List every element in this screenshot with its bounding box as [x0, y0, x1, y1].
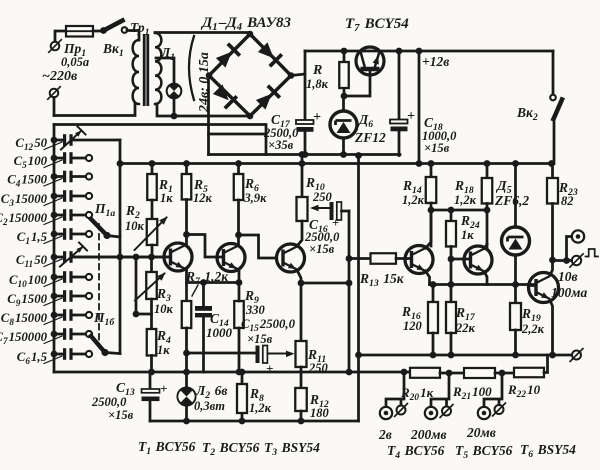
svg-text:1,2к: 1,2к — [402, 193, 425, 207]
ground rail power supply — [209, 153, 401, 156]
svg-text:2в: 2в — [378, 427, 392, 442]
pointer C9 — [44, 298, 62, 306]
junction lamp bottom — [171, 113, 178, 120]
wire R4 bottom — [150, 356, 153, 373]
tap 20мв wires — [484, 373, 502, 407]
pointer C11 — [44, 259, 62, 267]
svg-text:+: + — [332, 216, 339, 230]
svg-text:×15в: ×15в — [309, 242, 335, 256]
switch Вк1 — [100, 27, 107, 34]
resistor R5 — [182, 174, 192, 200]
brace secondary rating — [189, 36, 194, 100]
resistor R24 lead — [450, 210, 453, 221]
terminal 2в slash — [397, 406, 406, 415]
switch Вк2 — [550, 95, 556, 101]
wire R9 leads — [238, 283, 241, 373]
svg-text:2,2к: 2,2к — [521, 322, 545, 336]
zener Д6 bottom lead — [342, 138, 345, 155]
wire secondary bottom to bridge bottom — [157, 104, 251, 116]
potentiometer R11 — [296, 341, 307, 367]
arrow C15 to R11 — [269, 353, 292, 355]
diode top-left edge — [216, 52, 232, 68]
resistor R12 — [295, 388, 307, 411]
resistor R6 lead — [237, 164, 240, 175]
top +12 rail — [305, 50, 553, 53]
wire R6 to T2 collector — [237, 200, 240, 245]
svg-text:ZF12: ZF12 — [354, 130, 386, 145]
capacitor C12 50 — [51, 137, 58, 144]
resistor R20 — [410, 368, 440, 378]
resistor R5 lead — [185, 164, 188, 175]
capacitor C14 — [195, 306, 212, 311]
wire R14 bottom — [430, 203, 433, 246]
capacitor C4 1500 — [51, 173, 58, 180]
resistor R23 — [547, 178, 558, 204]
svg-text:~220в: ~220в — [42, 69, 78, 84]
svg-text:1000: 1000 — [206, 325, 233, 340]
potentiometer R10 — [297, 197, 308, 221]
wire C14 bottom — [202, 318, 205, 373]
emitter coupling wire — [187, 281, 240, 284]
wire T2 emitter — [238, 271, 241, 283]
svg-text:12к: 12к — [193, 191, 213, 205]
wire common bus feed — [54, 125, 266, 155]
zener Д5 — [502, 227, 530, 255]
transistor T4 — [405, 246, 433, 274]
switch П1б contacts — [86, 274, 92, 280]
transformer Тр1 core — [144, 34, 148, 106]
wire T1 emitter to R7 — [185, 270, 188, 302]
svg-text:1к: 1к — [157, 343, 170, 357]
svg-text:100ма: 100ма — [551, 285, 587, 300]
terminal 20мв ring — [478, 407, 490, 419]
resistor R19 — [510, 303, 521, 330]
wire R11-R12 — [300, 367, 303, 388]
lamp Л1 — [166, 83, 181, 98]
svg-text:10к: 10к — [125, 219, 145, 233]
svg-text:1,2к: 1,2к — [249, 401, 272, 415]
capacitor C18 leads — [398, 51, 401, 156]
svg-text:+: + — [313, 110, 321, 125]
wire R7 bottom — [185, 328, 188, 372]
resistor R 1.8к leads — [344, 51, 370, 96]
wire bridge right vertex to C17 column — [291, 74, 305, 76]
rail T1 emitter to C15 — [187, 352, 257, 355]
wire R3-R4 — [150, 299, 153, 329]
wire R3 top — [150, 257, 153, 272]
wire R20-R21 — [440, 372, 464, 375]
switch П1а blade — [91, 219, 107, 236]
fuse Пр1 — [66, 26, 93, 37]
input terminal lower — [50, 89, 59, 98]
wire R19 bottom — [514, 330, 517, 355]
input terminal upper (~220в) — [51, 42, 60, 51]
resistor R6 — [234, 174, 244, 200]
svg-text:120: 120 — [403, 319, 423, 333]
svg-text:С7 150000: С7 150000 — [0, 330, 48, 346]
resistor R18 — [482, 178, 493, 204]
svg-text:×15в: ×15в — [247, 332, 273, 346]
svg-text:С6 1,5: С6 1,5 — [17, 350, 48, 366]
wire R16 bottom — [432, 333, 435, 355]
wire C16 to feedback line — [342, 210, 350, 213]
dot R top rail — [341, 48, 348, 55]
svg-text:330: 330 — [245, 303, 266, 317]
arrow R3 — [135, 274, 165, 301]
wire input lower down — [53, 98, 56, 116]
wire T6 base — [529, 284, 536, 287]
rheostat R2 — [147, 219, 158, 245]
resistor R22 — [514, 368, 544, 378]
capacitor C15 — [256, 346, 260, 364]
capacitor C13 — [142, 389, 160, 393]
bridge Д1-Д4 outline — [209, 34, 291, 116]
wire R24 bottom to T5 base — [451, 247, 470, 260]
lamp Л2 — [177, 387, 196, 406]
capacitor C9 1500 — [51, 293, 58, 300]
pointer C5 — [44, 160, 62, 168]
resistor R13 — [371, 253, 397, 264]
transistor T5 — [464, 246, 492, 274]
switch common vertical — [119, 140, 122, 354]
transistor T1 — [164, 243, 192, 271]
resistor R8 leads — [241, 372, 244, 421]
wiper arrow R10 — [313, 207, 330, 209]
wire Вк1 to transformer primary — [127, 31, 139, 41]
pointer C1 — [44, 236, 62, 244]
bridge vertex dots — [247, 31, 254, 38]
capacitor C6 1,5 — [51, 351, 58, 358]
pulse symbol — [586, 249, 598, 257]
terminal 20мв slash — [495, 405, 504, 414]
switch П1б blade — [91, 336, 105, 353]
pointer R7 — [192, 285, 198, 296]
svg-text:+: + — [266, 361, 273, 376]
pointer C3 — [44, 198, 62, 206]
pointer C2 — [44, 217, 62, 225]
wire fuse to Вк1 — [93, 30, 102, 33]
+12 distribution rail — [120, 162, 552, 165]
capacitor C16 — [330, 202, 334, 220]
wire T1 collector to T2 base — [187, 235, 224, 258]
wire input upper to fuse — [55, 31, 66, 41]
transistor T6 — [529, 273, 559, 303]
output terminal slash — [572, 256, 581, 265]
zener Д6 lead — [342, 96, 345, 111]
capacitor C17 leads — [304, 51, 307, 155]
resistor R14 lead — [430, 164, 433, 178]
svg-text:R: R — [312, 63, 322, 78]
resistor R14 — [426, 177, 437, 203]
zener Д6 — [330, 111, 357, 138]
wire R12 bottom — [300, 411, 303, 421]
terminal 200мв slash — [442, 407, 451, 416]
resistor R24 — [446, 221, 456, 247]
resistor R23 lead — [551, 164, 554, 179]
svg-text:250: 250 — [312, 190, 333, 204]
wire T5 collector jog — [485, 244, 488, 249]
resistor R1 lead — [151, 164, 154, 175]
transistor T3 — [277, 244, 305, 272]
wire T2 collector to T3 base — [239, 235, 277, 258]
wire R17 bottom — [450, 333, 453, 355]
resistor R13 wire right — [396, 257, 412, 260]
resistor R16 lead — [432, 285, 435, 303]
tap 2в wires — [386, 372, 404, 407]
wire R2 bottom — [151, 245, 154, 257]
svg-text:С1 1,5: С1 1,5 — [17, 230, 48, 246]
svg-text:С8 15000: С8 15000 — [1, 311, 48, 327]
rheostat R3 — [146, 272, 157, 299]
capacitor C5 100 — [51, 155, 58, 162]
wire primary bottom — [54, 104, 135, 116]
svg-text:20мв: 20мв — [466, 425, 496, 440]
diode top-right edge — [258, 42, 274, 58]
capacitor C7 150000 — [51, 331, 58, 338]
dot R bottom — [341, 93, 348, 100]
diode bottom-right edge — [256, 94, 272, 110]
capacitor C13 leads — [149, 372, 152, 421]
svg-text:2500,0: 2500,0 — [91, 395, 127, 409]
transistor T7 — [356, 47, 384, 75]
wire ground rail to output terminal — [553, 354, 572, 357]
svg-text:С2 150000: С2 150000 — [0, 211, 48, 227]
capacitor C8 15000 — [51, 312, 58, 319]
pointer C7 — [44, 336, 62, 344]
svg-text:0,05а: 0,05а — [61, 55, 89, 69]
svg-text:×35в: ×35в — [268, 138, 294, 152]
resistor R17 — [446, 302, 456, 333]
svg-text:1к: 1к — [461, 228, 474, 242]
svg-text:3,9к: 3,9к — [244, 191, 268, 205]
svg-text:С10 100: С10 100 — [9, 273, 48, 289]
T1 base rail — [73, 256, 171, 259]
feedback vertical — [348, 211, 351, 372]
capacitor C11 50 — [51, 254, 58, 261]
transistor T2 — [217, 244, 245, 272]
wire T3 emitter to feedback — [301, 282, 349, 285]
wire R23 to T6 collector — [551, 204, 554, 261]
terminal 2в ring — [380, 407, 392, 419]
resistor R18 lead — [486, 164, 489, 179]
wire T4 collector — [426, 210, 432, 248]
pointer C8 — [44, 317, 62, 325]
switch gang dashed link — [98, 224, 100, 346]
pointer C10 — [44, 279, 62, 287]
resistor R1 — [147, 174, 157, 200]
wire bridge left vertex down — [207, 76, 210, 155]
wire R24 node down to R17 — [450, 259, 453, 302]
rheostat R3 branch vertical — [136, 257, 152, 314]
capacitor C2 150000 — [51, 212, 58, 219]
wire T3 collector — [298, 221, 303, 246]
svg-text:10к: 10к — [154, 302, 174, 316]
svg-text:200мв: 200мв — [410, 427, 447, 442]
ground spine vertical — [357, 156, 360, 422]
output ground terminal — [572, 351, 581, 360]
switch П1а contacts — [86, 155, 92, 161]
diode bottom-left edge — [213, 84, 229, 100]
svg-text:+: + — [160, 381, 167, 396]
resistor R8 — [237, 384, 247, 413]
potentiometer R10 lead — [301, 155, 304, 198]
collector coupling wire — [431, 209, 487, 212]
wire П1а blade to common — [107, 236, 120, 238]
wire +12 vertical to distribution rail — [418, 51, 421, 164]
wire T6 collector — [550, 260, 553, 275]
capacitor C3 15000 — [51, 193, 58, 200]
wire R21-R22 — [495, 372, 514, 375]
resistor R21 — [464, 368, 495, 378]
wire R5 to T1 collector — [185, 200, 188, 246]
svg-text:1,8к: 1,8к — [306, 77, 329, 91]
svg-text:10в: 10в — [558, 269, 578, 284]
resistor R16 — [428, 302, 438, 333]
pointer C12 — [44, 142, 62, 150]
svg-text:×15в: ×15в — [424, 141, 450, 155]
capacitor C17 — [296, 120, 314, 124]
bottom rail — [150, 420, 359, 423]
trimmer arrow C12 — [61, 131, 82, 150]
wire R22 to ground rail — [544, 355, 548, 373]
terminal 200мв ring — [425, 407, 437, 419]
wire П1б blade to common — [105, 353, 120, 354]
ground rail output section — [359, 354, 553, 357]
wire R1-R2 — [151, 200, 154, 219]
capacitor bank bus — [53, 125, 56, 373]
wire inner horizontal — [209, 133, 267, 136]
svg-text:ZF6,2: ZF6,2 — [494, 193, 529, 208]
capacitor C18 — [390, 120, 408, 124]
svg-text:С4 1500: С4 1500 — [7, 173, 47, 189]
resistor R 1.8к — [339, 62, 349, 88]
svg-text:С15 2500,0: С15 2500,0 — [241, 317, 296, 333]
svg-text:+: + — [407, 109, 415, 124]
wire R18 to T5 collector — [486, 204, 489, 248]
svg-text:22к: 22к — [455, 321, 476, 335]
tap 200мв wires — [431, 373, 449, 407]
wire T3 emitter — [298, 271, 302, 341]
svg-text:С5 100: С5 100 — [14, 154, 48, 170]
svg-text:С9 1500: С9 1500 — [7, 292, 47, 308]
resistor R9 — [234, 301, 244, 328]
svg-text:82: 82 — [561, 194, 574, 208]
common rail — [54, 371, 410, 374]
svg-text:1к: 1к — [160, 191, 173, 205]
resistor R7 — [182, 301, 192, 328]
wire T4 emitter — [426, 271, 430, 285]
pointer C4 — [44, 179, 62, 187]
output ring terminal — [572, 230, 584, 242]
wire lamp leads — [156, 58, 174, 116]
svg-text:0,3вт: 0,3вт — [194, 399, 225, 413]
wire output to ring terminal — [567, 237, 572, 261]
svg-text:1,2к: 1,2к — [454, 193, 477, 207]
svg-text:С3 15000: С3 15000 — [1, 192, 48, 208]
emitter wire output stage — [430, 283, 536, 286]
svg-text:×15в: ×15в — [108, 408, 134, 422]
resistor R19 lead — [514, 285, 517, 304]
resistor R4 — [147, 329, 157, 356]
capacitor C14 lead — [202, 283, 205, 307]
wire secondary top to bridge — [155, 33, 250, 35]
wire Д5 bottom — [514, 255, 517, 285]
capacitor C1 1,5 — [51, 231, 58, 238]
svg-text:180: 180 — [310, 406, 330, 420]
switch Вк2 wire from rail — [552, 51, 555, 95]
transformer Тр1 secondary winding — [155, 33, 161, 104]
zener Д5 lead — [514, 164, 517, 228]
lamp Л2 leads — [185, 372, 188, 421]
arrow R2 — [135, 218, 167, 251]
pointer C6 — [44, 356, 62, 364]
resistor R13 wire left — [349, 257, 371, 260]
wire T6 emitter — [550, 301, 553, 356]
capacitor C10 100 — [51, 274, 58, 281]
transformer Тр1 primary winding — [133, 40, 139, 104]
svg-text:+12в: +12в — [422, 54, 449, 69]
trimmer arrow C11 — [60, 247, 83, 267]
wire T5 emitter — [485, 272, 488, 285]
wire output node — [553, 259, 572, 262]
